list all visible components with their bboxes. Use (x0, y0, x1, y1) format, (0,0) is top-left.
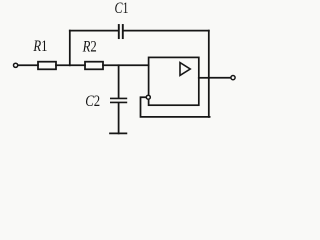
label C2 (85, 93, 100, 111)
ground (110, 132, 126, 134)
feedback wire from output net to inverting input (141, 97, 210, 117)
svg-text:R2: R2 (82, 38, 97, 56)
wire C1 to right vertical (124, 30, 209, 32)
output terminal (231, 76, 235, 80)
label C1 (115, 1, 129, 18)
node A (R1-R2 junction) branch up to C1 (69, 31, 71, 66)
node B branch down to C2 (118, 65, 120, 97)
input terminal (14, 63, 18, 67)
capacitor C2 (111, 98, 127, 102)
paper background (0, 0, 245, 147)
inverting input bubble (146, 95, 150, 99)
wire to output terminal (209, 77, 231, 79)
resistor R2 (85, 62, 103, 70)
wire top left to C1 (70, 30, 118, 32)
svg-text:C1: C1 (115, 1, 129, 18)
wire R1 to R2 (56, 64, 85, 66)
label R2 (82, 38, 97, 56)
capacitor C1 (119, 25, 123, 38)
wire right vertical (output net) (208, 31, 210, 117)
op-amp U1 box (149, 57, 199, 105)
label R1 (33, 38, 48, 56)
op-amp triangle symbol (180, 63, 190, 76)
wire op-amp output (199, 77, 209, 79)
resistor R1 (38, 62, 56, 70)
wire R2 to op-amp (103, 64, 149, 66)
svg-text:R1: R1 (33, 38, 48, 56)
wire C2 to ground bar (118, 103, 120, 133)
svg-text:C2: C2 (85, 93, 100, 111)
wire input to R1 (18, 64, 38, 66)
